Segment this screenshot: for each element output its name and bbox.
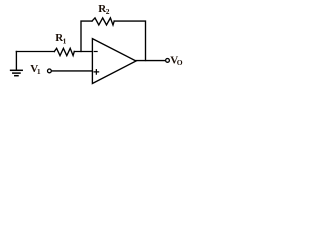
label R1: [55, 32, 66, 45]
svg-text:2: 2: [106, 7, 110, 16]
resistor R2: [92, 18, 114, 25]
label Vo: [170, 54, 183, 67]
svg-text:1: 1: [37, 67, 41, 76]
op-amp U1: [92, 39, 136, 84]
ground: [11, 52, 23, 76]
op-amp minus sign: [94, 51, 97, 53]
wire feedback left leg: [81, 21, 92, 51]
wire R1 to op-amp inverting input: [74, 51, 92, 53]
wire ground to R1: [16, 51, 54, 53]
resistor R1: [54, 48, 74, 55]
terminal circle Vo: [166, 59, 170, 63]
op-amp plus sign: [94, 70, 99, 75]
wire op-amp output: [136, 60, 165, 62]
wire R2 to output node: [114, 21, 145, 60]
wire V1 to op-amp non-inverting input: [52, 70, 93, 72]
label V1: [30, 63, 41, 76]
terminal circle V1: [48, 69, 52, 73]
svg-text:1: 1: [63, 36, 67, 45]
label R2: [98, 3, 110, 16]
svg-text:O: O: [177, 58, 183, 67]
